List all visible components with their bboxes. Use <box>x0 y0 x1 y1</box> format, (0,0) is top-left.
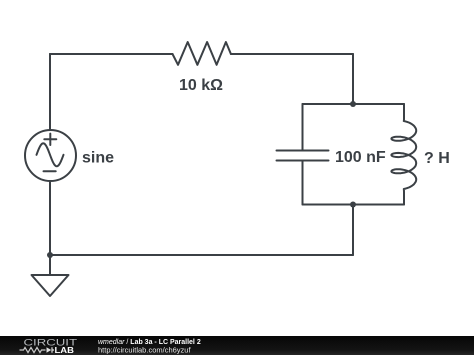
wire source lower lead <box>49 181 51 255</box>
wire right vertical lower <box>352 205 354 256</box>
wire capacitor upper lead <box>302 104 304 150</box>
wire top horizontal right segment <box>231 53 353 55</box>
wire ground lead <box>49 255 51 275</box>
logo diode <box>47 347 52 352</box>
voltage source V1 plus <box>44 134 56 145</box>
svg-text:10 kΩ: 10 kΩ <box>179 77 223 94</box>
voltage source V1 minus <box>44 170 56 172</box>
node junction left bottom <box>47 252 53 258</box>
wire bottom horizontal <box>50 254 353 256</box>
svg-text:sine: sine <box>82 150 114 167</box>
wire LC box bottom <box>303 204 405 206</box>
wire right vertical upper <box>352 54 354 104</box>
voltage source V1 circle <box>25 130 76 181</box>
resistor R1 <box>173 42 231 65</box>
svg-text:LAB: LAB <box>55 345 75 355</box>
svg-text:http://circuitlab.com/ch6yzuf: http://circuitlab.com/ch6yzuf <box>98 345 191 354</box>
svg-text:100 nF: 100 nF <box>335 149 386 166</box>
inductor L1 <box>391 104 416 205</box>
wire top horizontal left segment <box>50 53 173 55</box>
wire LC box top <box>303 103 405 105</box>
wire top-left vertical <box>49 54 51 130</box>
svg-text:? H: ? H <box>424 150 450 167</box>
ground <box>32 275 69 296</box>
node junction LC bottom <box>350 202 356 208</box>
voltage source V1 sine symbol <box>37 143 64 166</box>
capacitor C1 <box>277 151 329 161</box>
wire capacitor lower lead <box>302 162 304 205</box>
logo resistor zigzag <box>20 347 46 352</box>
wire source upper lead <box>49 54 51 130</box>
node junction LC top <box>350 101 356 107</box>
